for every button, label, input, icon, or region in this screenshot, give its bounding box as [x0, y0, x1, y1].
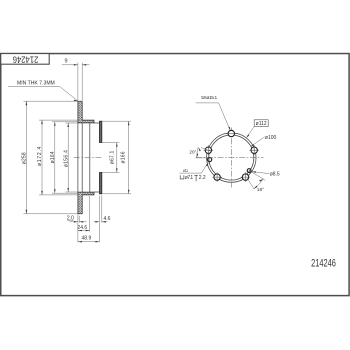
inner circle o100	[209, 135, 254, 180]
svg-text:48.9: 48.9	[82, 236, 92, 242]
bolt hole upper-right	[251, 147, 257, 153]
dim 48.9 bottom	[78, 241, 100, 243]
svg-text:214246: 214246	[311, 258, 336, 270]
svg-text:4.6: 4.6	[104, 216, 111, 222]
counterbore symbol	[180, 175, 184, 179]
border frame	[1, 54, 349, 296]
svg-text:ø11: ø11	[183, 168, 188, 173]
dim 24.6 bottom	[78, 196, 90, 231]
section centerline	[74, 157, 103, 159]
svg-text:24.6: 24.6	[77, 225, 87, 231]
dim o172.4 line	[39, 120, 78, 195]
bolt hole lower-left	[214, 174, 220, 180]
20 deg dimension	[196, 148, 214, 158]
friction ring + hat wall hatched bottom	[78, 192, 94, 214]
boxed label o112 with leader	[254, 120, 268, 127]
flange hatched top	[100, 121, 102, 142]
dim 9 top	[62, 63, 90, 101]
svg-text:20°: 20°	[189, 150, 196, 155]
horizontal centerline	[196, 157, 264, 159]
dim 2.0 bottom	[67, 215, 87, 243]
svg-text:ø7.1: ø7.1	[185, 175, 194, 181]
flange hatched bottom	[100, 172, 102, 193]
small hole lower-right o8.5	[247, 169, 251, 173]
dim 4.6 bottom	[94, 196, 108, 243]
svg-text:214246: 214246	[13, 55, 39, 65]
dim o156.4 line	[66, 123, 79, 192]
svg-text:ø8.5: ø8.5	[270, 172, 280, 178]
svg-text:ø156.4: ø156.4	[63, 150, 69, 167]
svg-text:ø100: ø100	[265, 135, 277, 141]
hat lip top	[94, 122, 100, 124]
depth symbol	[194, 175, 197, 181]
bolt hole upper-left	[205, 147, 211, 153]
svg-text:MIN THK 7.3MM: MIN THK 7.3MM	[17, 80, 55, 86]
svg-text:18°: 18°	[257, 187, 264, 193]
hat lip bottom	[94, 191, 100, 193]
svg-text:ø166: ø166	[121, 151, 127, 163]
18 deg dimension	[247, 171, 265, 189]
svg-text:ø67.1: ø67.1	[110, 151, 116, 165]
vertical centerline	[230, 128, 232, 189]
svg-text:ø164: ø164	[50, 151, 56, 163]
bolt hole lower-right	[242, 174, 248, 180]
small hole left (counterbored)	[208, 158, 212, 162]
dim o164 line	[52, 122, 78, 193]
dim o166 line	[102, 121, 131, 194]
dim o258 line	[24, 101, 78, 214]
title box top-left	[1, 54, 49, 65]
bolt hole top	[228, 130, 234, 136]
svg-text:ø172.4: ø172.4	[37, 146, 43, 166]
svg-text:ø258: ø258	[22, 152, 28, 164]
svg-text:2.0: 2.0	[67, 215, 74, 221]
svg-text:2.2: 2.2	[199, 175, 206, 181]
svg-text:ø112: ø112	[256, 121, 267, 127]
hat inner bore silhouette	[89, 123, 91, 192]
svg-text:5Xø15.1: 5Xø15.1	[201, 95, 217, 101]
dim o67.1 line	[100, 143, 120, 173]
outer circle o112	[207, 133, 256, 182]
friction ring + hat wall hatched top	[78, 101, 94, 123]
svg-text:9: 9	[64, 58, 67, 64]
disc silhouette verticals middle	[78, 123, 82, 192]
